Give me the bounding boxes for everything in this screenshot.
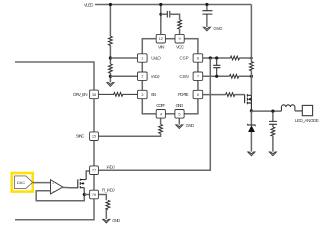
pin labels of U1 xyxy=(151,44,188,108)
wire host bus pin77 to pin76 xyxy=(93,175,95,191)
transistor Q1 PMOS xyxy=(245,94,252,111)
resistor R3 VCC series xyxy=(178,20,182,29)
svg-text:GND: GND xyxy=(186,123,195,128)
inductor L1 xyxy=(281,105,295,111)
svg-text:15: 15 xyxy=(92,134,96,139)
wire op-amp minus feedback loop xyxy=(36,188,84,201)
node junction rail/VIN xyxy=(159,3,162,6)
wire PGATE from pin 6 xyxy=(203,94,226,96)
wire right rail down from VLED xyxy=(250,5,252,96)
ground under R10 xyxy=(103,219,110,223)
wire R9 to pin 4 xyxy=(160,118,162,124)
highlight yellow box around DAC xyxy=(12,173,33,192)
svg-text:8: 8 xyxy=(197,56,199,61)
host pin boxes xyxy=(90,90,99,199)
resistor R5 sense xyxy=(250,62,254,71)
capacitor C1 VCC filter xyxy=(167,11,170,18)
wire Q2 drain to pin 77 xyxy=(86,171,90,180)
pin 77 IADJ xyxy=(90,166,99,175)
wire source tee to pin 76 xyxy=(84,194,89,196)
node snubber tap xyxy=(271,110,274,113)
svg-text:6: 6 xyxy=(197,92,199,97)
svg-text:IADJ: IADJ xyxy=(151,74,159,79)
node CSP junction a xyxy=(209,56,212,59)
wire R_IADJ from pin76 xyxy=(98,195,106,201)
pin 7 xyxy=(193,72,203,80)
wire CSP from pin 8 xyxy=(203,57,231,59)
terminal LED_ANODE box xyxy=(302,105,312,115)
node UVLO tap xyxy=(109,56,112,59)
svg-text:DRV_EN: DRV_EN xyxy=(73,92,88,97)
resistor R4 CSP series xyxy=(230,56,239,60)
node source to pin76 tee xyxy=(83,193,86,196)
svg-text:7: 7 xyxy=(197,74,199,79)
resistor R9 COFF xyxy=(159,124,163,133)
svg-text:9: 9 xyxy=(179,36,181,41)
wire tap to capacitor C1 xyxy=(161,13,167,15)
pin 15 SYNC xyxy=(90,132,99,141)
svg-text:DAC: DAC xyxy=(17,180,26,185)
wire SYNC to COFF resistor xyxy=(98,134,160,137)
node CSP junction b xyxy=(215,56,218,59)
wire R7 to ground xyxy=(272,136,274,152)
svg-text:CSP: CSP xyxy=(179,56,188,61)
op-amp U2 xyxy=(51,180,63,194)
capacitor C4 snubber xyxy=(269,111,277,127)
node junction on rail at divider xyxy=(109,3,112,6)
svg-text:5: 5 xyxy=(178,111,180,116)
svg-text:PGATE: PGATE xyxy=(178,92,189,97)
pin 9 xyxy=(175,34,184,43)
transistor Q2 NMOS xyxy=(78,179,86,189)
capacitor C2 input bypass xyxy=(202,5,212,28)
wire R3 to pin 9 xyxy=(179,29,181,35)
svg-text:UVLO: UVLO xyxy=(151,56,161,61)
wire switch node to inductor xyxy=(251,110,281,112)
ground under pin 5 xyxy=(178,118,180,125)
svg-text:EN: EN xyxy=(151,92,156,97)
resistor R7 snubber xyxy=(271,127,275,136)
wire R4 to right rail xyxy=(240,57,252,59)
node IADJ tap xyxy=(109,75,112,78)
svg-text:2: 2 xyxy=(141,74,143,79)
svg-text:GND: GND xyxy=(112,218,120,223)
svg-text:SYNC: SYNC xyxy=(76,134,85,139)
ground for C2 xyxy=(203,27,210,31)
resistor R11 CSN series xyxy=(230,74,239,78)
resistor R10 R_IADJ xyxy=(106,200,110,209)
svg-text:VIN: VIN xyxy=(158,44,164,49)
ground under divider xyxy=(107,83,114,87)
wire R6 to gate xyxy=(234,94,244,96)
ground under D1 xyxy=(248,152,255,156)
wire IADJ pin77 to CSP node xyxy=(98,58,210,170)
svg-text:−: − xyxy=(52,190,54,194)
pin 38 DRV_EN xyxy=(90,90,99,99)
wire D1 to ground xyxy=(250,132,252,152)
pin 3 xyxy=(138,90,148,98)
wire divider vertical from rail xyxy=(109,5,111,83)
wire DRV_EN dangling feed xyxy=(15,62,94,90)
svg-text:38: 38 xyxy=(92,92,96,97)
resistor R6 gate series xyxy=(226,93,235,97)
wire R10 to ground xyxy=(105,210,107,219)
svg-text:3: 3 xyxy=(141,92,143,97)
wire host bus pin15 to pin77 xyxy=(93,141,95,166)
pin 6 xyxy=(193,90,203,98)
node CSN junction rail xyxy=(250,75,253,78)
pin 12 xyxy=(156,34,165,43)
port DAC tag xyxy=(15,176,33,189)
node junction rail/input cap xyxy=(205,3,208,6)
svg-text:VCC: VCC xyxy=(176,44,185,49)
host pin labels xyxy=(73,92,115,193)
node switch node xyxy=(250,109,253,112)
node junction VCC filter tap xyxy=(159,13,162,16)
node CSP-rail junction xyxy=(250,57,253,60)
wire DAC to op-amp input xyxy=(33,182,51,184)
resistor R2 divider lower xyxy=(109,64,113,73)
svg-text:76: 76 xyxy=(92,192,96,197)
pin 1 xyxy=(138,54,148,62)
wire UVLO tap to pin1 xyxy=(110,57,137,59)
wire IADJ tap to pin2 xyxy=(110,75,137,77)
svg-text:77: 77 xyxy=(92,168,96,173)
wire op-amp output to gate xyxy=(63,186,78,188)
wire inductor to LED terminal xyxy=(295,110,303,112)
svg-text:IADJ: IADJ xyxy=(107,165,115,170)
resistor R1 divider upper xyxy=(109,36,113,45)
pin boxes of U1 xyxy=(138,34,203,118)
svg-text:GND: GND xyxy=(176,103,184,108)
svg-text:LED_ANODE: LED_ANODE xyxy=(295,118,319,123)
wire host bus pin76 down and left dangling xyxy=(15,199,94,220)
svg-text:12: 12 xyxy=(159,36,163,41)
wire VIN stub from rail to pin 12 xyxy=(160,5,162,35)
svg-text:R_IADJ: R_IADJ xyxy=(102,188,115,193)
svg-text:CSN: CSN xyxy=(179,74,188,79)
IC U1 body outline xyxy=(142,39,198,114)
capacitor C3 CSP-CSN xyxy=(213,58,220,76)
node CSN junction cap xyxy=(215,75,218,78)
svg-text:+: + xyxy=(52,182,54,186)
pin 4 xyxy=(156,110,165,119)
resistor R8 DRV_EN series xyxy=(98,93,137,97)
svg-text:1: 1 xyxy=(141,56,143,61)
wire top VLED rail xyxy=(95,4,251,6)
ground under R7 xyxy=(269,152,276,156)
wire host bus pin38 to pin15 xyxy=(93,99,95,132)
pin 5 xyxy=(175,110,184,119)
wire CSN from pin 7 xyxy=(203,75,252,77)
wire C1 to R3 corner xyxy=(170,14,180,20)
pin 8 xyxy=(193,54,203,62)
svg-text:COFF: COFF xyxy=(156,103,165,108)
pin 76 R_IADJ xyxy=(90,190,99,199)
svg-text:GND: GND xyxy=(213,26,222,31)
svg-text:VLED: VLED xyxy=(84,2,94,7)
diode D1 freewheel schottky xyxy=(250,111,252,125)
pin 2 xyxy=(138,72,148,80)
